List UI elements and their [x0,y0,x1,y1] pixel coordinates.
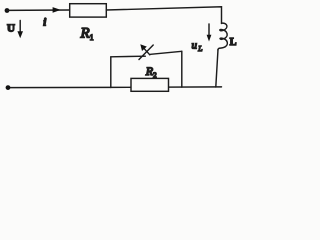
svg-text:i: i [43,18,46,29]
svg-text:R1: R1 [80,25,94,42]
resistor R1 [70,4,107,17]
switch branch top wire right segment [151,51,182,54]
switch branch top wire left segment [111,55,146,58]
bottom wire [8,86,222,89]
svg-text:U: U [7,23,15,35]
wire top-right [106,7,221,24]
inductor L [218,23,227,50]
svg-text:uL: uL [192,39,203,53]
arrow U [19,21,21,34]
svg-text:R2: R2 [145,64,157,79]
svg-text:L: L [230,37,237,48]
current arrow i [53,7,61,13]
wire right side below coil [216,50,218,88]
switch S blade [139,45,153,60]
switch branch left vertical wire [110,57,112,88]
wire top-left [7,9,69,11]
switch branch right vertical wire [181,51,183,87]
resistor R2 [131,78,169,91]
node B (bottom-left terminal) [6,85,11,90]
node A (top-left terminal) [5,8,10,13]
arrow uL [208,24,210,38]
switch S operating arrow [143,47,150,55]
